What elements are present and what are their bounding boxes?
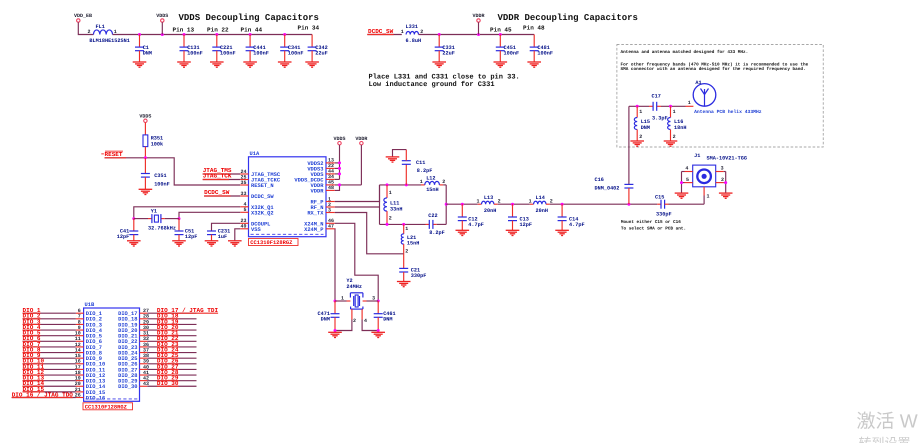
svg-text:VDDS: VDDS bbox=[156, 13, 168, 19]
wire VDDR bus (decoupling row) bbox=[419, 33, 535, 36]
svg-text:1: 1 bbox=[688, 100, 691, 106]
wire DIO_17 / JTAG TDI bbox=[147, 312, 218, 314]
pin 28 DIO_18 U1B bbox=[118, 314, 149, 323]
ground under C14 bbox=[555, 230, 569, 235]
svg-text:DCDC_SW: DCDC_SW bbox=[204, 189, 230, 196]
ground under C461 bbox=[371, 332, 385, 337]
svg-text:22uF: 22uF bbox=[442, 50, 454, 56]
svg-text:100k: 100k bbox=[151, 141, 163, 147]
wire DIO_2 bbox=[23, 318, 76, 320]
svg-text:330pF: 330pF bbox=[656, 212, 672, 218]
svg-text:100nF: 100nF bbox=[187, 50, 203, 56]
svg-text:L12: L12 bbox=[426, 175, 435, 181]
svg-text:DIO_16: DIO_16 bbox=[86, 395, 105, 401]
svg-text:Antenna and antenna matched de: Antenna and antenna matched designed for… bbox=[621, 49, 749, 55]
capacitor C351 100nF bbox=[141, 158, 170, 190]
svg-text:8.2pF: 8.2pF bbox=[429, 230, 445, 236]
wire DIO_26 bbox=[147, 363, 196, 365]
svg-text:X32K_Q2: X32K_Q2 bbox=[251, 210, 274, 216]
pin 31 DIO_21 U1B bbox=[118, 331, 149, 340]
svg-text:C17: C17 bbox=[652, 94, 661, 100]
svg-text:Pin 48: Pin 48 bbox=[523, 25, 545, 32]
pin 6 DIO_1 U1B bbox=[76, 308, 102, 317]
svg-text:1: 1 bbox=[405, 226, 408, 232]
power flag VDD_EB bbox=[74, 13, 92, 22]
pin 41 DIO_28 U1B bbox=[118, 370, 149, 379]
ground under J1 right bbox=[719, 193, 733, 198]
svg-text:6.8uH: 6.8uH bbox=[406, 38, 422, 44]
svg-text:20nH: 20nH bbox=[536, 208, 548, 214]
svg-text:1: 1 bbox=[389, 190, 392, 196]
svg-text:U1A: U1A bbox=[250, 151, 260, 157]
wire balun left edge bbox=[379, 185, 381, 225]
wire DIO_18 bbox=[147, 318, 196, 320]
pin 27 DIO_17 U1B bbox=[118, 308, 149, 317]
capacitor C22 8.2pF bbox=[428, 213, 444, 236]
pin 22 VDDS3 U1A bbox=[307, 163, 334, 172]
svg-text:VDDS Decoupling Capacitors: VDDS Decoupling Capacitors bbox=[179, 13, 319, 23]
svg-text:3: 3 bbox=[372, 295, 375, 301]
pin 4 X32K_Q1 U1A bbox=[240, 202, 273, 211]
svg-text:48: 48 bbox=[328, 185, 334, 191]
capacitor C1 DNM bbox=[135, 35, 152, 63]
pin 35 RESET_N U1A bbox=[240, 180, 273, 189]
pin 18 DIO_12 U1B bbox=[75, 370, 105, 379]
wire DIO_25 bbox=[147, 357, 196, 359]
svg-text:DNM: DNM bbox=[383, 317, 392, 323]
pin 25 JTAG_TCKC U1A bbox=[240, 174, 281, 183]
svg-text:CC1310F128RGZ: CC1310F128RGZ bbox=[85, 404, 127, 410]
svg-text:C11: C11 bbox=[416, 160, 425, 166]
svg-text:L13: L13 bbox=[484, 195, 493, 201]
svg-text:20nH: 20nH bbox=[484, 208, 496, 214]
ground under C471 bbox=[328, 332, 342, 337]
ground under C231 bbox=[205, 241, 219, 246]
svg-text:1: 1 bbox=[420, 179, 423, 185]
svg-text:3.3pF: 3.3pF bbox=[652, 116, 668, 122]
value label CC1310F128RGZ (U1A) bbox=[249, 239, 299, 247]
svg-text:Antenna PCB helix 433MHz: Antenna PCB helix 433MHz bbox=[694, 109, 762, 115]
pin 2 RF_N U1A bbox=[311, 202, 335, 211]
svg-text:1: 1 bbox=[529, 199, 532, 205]
svg-text:32.768kHz: 32.768kHz bbox=[148, 225, 176, 231]
ground under C51 bbox=[172, 241, 186, 246]
wire DIO_29 bbox=[147, 380, 196, 382]
capacitor C131 100nF bbox=[180, 35, 203, 63]
wire DIO_9 bbox=[23, 357, 76, 359]
svg-text:VDDR: VDDR bbox=[311, 188, 325, 194]
wire JTAG_TMS bbox=[203, 173, 241, 175]
pin 12 DIO_7 U1B bbox=[75, 342, 102, 351]
svg-text:X24M_P: X24M_P bbox=[304, 227, 323, 233]
ground under C21 bbox=[397, 282, 411, 287]
ferrite bead FL1 BLM18HE152SN1 bbox=[87, 24, 129, 44]
svg-text:Pin 44: Pin 44 bbox=[241, 27, 263, 34]
svg-text:4.7pF: 4.7pF bbox=[468, 222, 484, 228]
inductor L21 15nH bbox=[401, 224, 419, 254]
connector J1 SMA-10V21-TGG bbox=[685, 153, 747, 200]
ground under L16 bbox=[664, 141, 678, 146]
wire DIO_14 bbox=[23, 385, 76, 387]
svg-text:VDDR: VDDR bbox=[472, 13, 484, 19]
svg-text:VDDR Decoupling Capacitors: VDDR Decoupling Capacitors bbox=[498, 13, 638, 23]
capacitor C231 1uF bbox=[207, 223, 240, 241]
svg-text:1: 1 bbox=[401, 29, 404, 35]
capacitor C451 100nF bbox=[496, 35, 519, 63]
pin 26 DIO_16 U1B bbox=[75, 392, 105, 401]
svg-text:RESET: RESET bbox=[105, 151, 123, 158]
watermark activate windows bbox=[857, 412, 918, 443]
svg-text:Mount either C15 or C16: Mount either C15 or C16 bbox=[621, 219, 681, 225]
capacitor C331 22uF bbox=[435, 35, 455, 63]
svg-text:18nH: 18nH bbox=[674, 125, 686, 131]
svg-text:15nH: 15nH bbox=[426, 187, 438, 193]
wire DIO_24 bbox=[147, 352, 196, 354]
pin 24 JTAG_TMSC U1A bbox=[240, 169, 281, 178]
pin 46 X24M_N U1A bbox=[304, 218, 335, 227]
ground under C451 bbox=[494, 62, 508, 67]
crystal Y1 32.768kHz bbox=[134, 208, 179, 231]
ground under C481 bbox=[527, 62, 541, 67]
wire DIO_21 bbox=[147, 335, 196, 337]
svg-text:VDD_EB: VDD_EB bbox=[74, 13, 92, 19]
pin 33 DCDC_SW U1A bbox=[240, 191, 274, 200]
value label CC1310F128RGZ (U1B) bbox=[83, 403, 133, 411]
svg-text:DCDC_SW: DCDC_SW bbox=[251, 194, 274, 200]
wire RF bus segment 1 bbox=[446, 203, 481, 206]
svg-text:C22: C22 bbox=[428, 213, 437, 219]
svg-text:4.7pF: 4.7pF bbox=[569, 222, 585, 228]
svg-text:12pF: 12pF bbox=[185, 234, 197, 240]
power flag VDDR bbox=[472, 13, 484, 35]
wire RF_N to balun left bbox=[335, 206, 380, 208]
resistor R351 100k bbox=[143, 123, 163, 158]
svg-text:12pF: 12pF bbox=[117, 234, 129, 240]
capacitor C481 100nF bbox=[530, 35, 553, 63]
wire antenna net bbox=[629, 105, 694, 147]
wire DIO_10 bbox=[23, 363, 76, 365]
svg-text:To select SMA or PCB ant.: To select SMA or PCB ant. bbox=[621, 226, 686, 232]
wire JTAG_TCK bbox=[203, 179, 241, 181]
svg-text:Pin 45: Pin 45 bbox=[490, 27, 512, 34]
svg-text:1: 1 bbox=[673, 109, 676, 115]
svg-text:Y1: Y1 bbox=[151, 208, 157, 214]
antenna matching dashed box bbox=[617, 45, 823, 148]
capacitor C51 12pF bbox=[175, 219, 198, 241]
svg-text:100nF: 100nF bbox=[504, 50, 520, 56]
wire RF bus segment 3 bbox=[546, 203, 661, 206]
svg-text:U1B: U1B bbox=[85, 302, 95, 308]
net label ~RESET bbox=[101, 151, 123, 158]
svg-text:DNM: DNM bbox=[321, 317, 330, 323]
wire DIO_3 bbox=[23, 323, 76, 325]
wire DIO_4 bbox=[23, 329, 76, 331]
ground under C341 bbox=[278, 62, 292, 67]
svg-text:RX_TX: RX_TX bbox=[307, 211, 324, 217]
wire RF bus segment 2 bbox=[494, 203, 534, 206]
capacitor C461 DNM bbox=[374, 301, 396, 331]
pin 7 DIO_2 U1B bbox=[76, 314, 102, 323]
pin 44 VDDS U1A bbox=[311, 169, 335, 178]
svg-text:24MHz: 24MHz bbox=[346, 284, 362, 290]
svg-text:49: 49 bbox=[240, 224, 246, 230]
pin 45 VDDR U1A bbox=[311, 180, 335, 189]
wire DIO_19 bbox=[147, 323, 196, 325]
ground under C331 bbox=[432, 62, 446, 67]
svg-text:Low inductance ground for C331: Low inductance ground for C331 bbox=[369, 80, 495, 89]
svg-text:L14: L14 bbox=[536, 195, 545, 201]
wire DIO_8 bbox=[23, 352, 76, 354]
pin 13 VDDS2 U1A bbox=[307, 158, 334, 167]
op IC U1A CC1310F128RGZ (RF/power section) bbox=[249, 151, 327, 237]
svg-text:4: 4 bbox=[685, 166, 688, 172]
ground under L15 bbox=[630, 141, 644, 146]
svg-text:330pF: 330pF bbox=[411, 273, 427, 279]
capacitor C14 4.7pF bbox=[558, 204, 585, 230]
inductor L11 33nH bbox=[384, 185, 403, 225]
wire balun bottom edge bbox=[380, 223, 447, 226]
pin 29 DIO_19 U1B bbox=[118, 319, 149, 328]
wire DIO_6 bbox=[23, 340, 76, 342]
svg-text:BLM18HE152SN1: BLM18HE152SN1 bbox=[89, 38, 129, 44]
wire X24M_N to Y2 pin3 bbox=[335, 223, 380, 302]
pin 16 DIO_10 U1B bbox=[75, 359, 105, 368]
capacitor C221 100nF bbox=[212, 35, 235, 63]
svg-text:JTAG_TCK: JTAG_TCK bbox=[203, 173, 232, 180]
wire DIO_1 bbox=[23, 312, 76, 314]
svg-text:2: 2 bbox=[639, 134, 642, 140]
pin 36 DIO_23 U1B bbox=[118, 342, 149, 351]
svg-text:4: 4 bbox=[364, 318, 367, 324]
wire DCDC_SW to pin 33 bbox=[204, 195, 240, 197]
wire RF_P to balun top bbox=[335, 185, 380, 202]
svg-text:SMA-10V21-TGG: SMA-10V21-TGG bbox=[707, 155, 747, 161]
svg-text:2: 2 bbox=[87, 29, 90, 35]
capacitor C471 DNM bbox=[318, 301, 340, 331]
svg-text:1: 1 bbox=[639, 109, 642, 115]
svg-text:100nF: 100nF bbox=[537, 50, 553, 56]
svg-text:100nF: 100nF bbox=[253, 50, 269, 56]
wire balun right edge bbox=[445, 185, 448, 225]
svg-text:1: 1 bbox=[707, 194, 710, 200]
pin 17 DIO_11 U1B bbox=[75, 364, 105, 373]
svg-text:L16: L16 bbox=[674, 119, 683, 125]
capacitor C11 8.2pF bbox=[393, 150, 433, 185]
svg-text:2: 2 bbox=[498, 199, 501, 205]
pin 34 VDDS_DCDC U1A bbox=[294, 174, 334, 183]
pin 3 RX_TX U1A bbox=[307, 207, 334, 216]
wire DIO_20 bbox=[147, 329, 196, 331]
svg-text:47: 47 bbox=[328, 224, 334, 230]
inductor L331 6.8uH bbox=[401, 24, 423, 44]
ground under C441 bbox=[243, 62, 257, 67]
wire J1 left pins to ground bbox=[680, 172, 693, 194]
svg-text:Pin 13: Pin 13 bbox=[173, 27, 195, 34]
svg-text:22uF: 22uF bbox=[315, 50, 327, 56]
svg-text:RESET_N: RESET_N bbox=[251, 183, 274, 189]
wire DIO_30 bbox=[147, 385, 196, 387]
wire RX_TX bbox=[335, 213, 404, 254]
pin 39 DIO_26 U1B bbox=[118, 359, 149, 368]
wire RESET net bbox=[105, 156, 241, 185]
wire DIO_7 bbox=[23, 346, 76, 348]
pin 5 X32K_Q2 U1A bbox=[240, 207, 273, 216]
pin 37 DIO_24 U1B bbox=[118, 347, 149, 356]
svg-text:12pF: 12pF bbox=[520, 222, 532, 228]
svg-text:L331: L331 bbox=[406, 24, 418, 30]
pin 9 DIO_4 U1B bbox=[76, 325, 103, 334]
pin 15 DIO_9 U1B bbox=[75, 353, 102, 362]
pin 49 VSS U1A bbox=[240, 224, 261, 233]
capacitor C342 22uF bbox=[308, 35, 328, 63]
wire VDDR net to pins 45 48 bbox=[335, 145, 362, 191]
pin 40 DIO_27 U1B bbox=[118, 364, 149, 373]
capacitor C15 330pF bbox=[655, 195, 704, 218]
svg-text:15nH: 15nH bbox=[407, 241, 419, 247]
capacitor C341 100nF bbox=[280, 35, 303, 63]
svg-text:2: 2 bbox=[550, 199, 553, 205]
wire X32K_Q2 bbox=[178, 212, 241, 220]
wire DIO_5 bbox=[23, 335, 76, 337]
svg-text:33: 33 bbox=[240, 191, 246, 197]
inductor L12 15nH bbox=[420, 175, 446, 193]
inductor L15 DNM bbox=[634, 106, 650, 141]
wire DIO_23 bbox=[147, 346, 196, 348]
ground under C12 bbox=[456, 230, 470, 235]
pin 1 RF_P U1A bbox=[311, 196, 335, 205]
pin 10 DIO_5 U1B bbox=[75, 331, 102, 340]
svg-text:2: 2 bbox=[405, 249, 408, 255]
svg-text:1uF: 1uF bbox=[218, 234, 227, 240]
svg-text:2: 2 bbox=[389, 216, 392, 222]
wire X24M_P to Y2 pin1 bbox=[334, 229, 337, 303]
pin 43 DIO_30 U1B bbox=[118, 381, 149, 390]
svg-text:VSS: VSS bbox=[251, 227, 261, 233]
svg-text:SMA connector with an antenna: SMA connector with an antenna designed f… bbox=[621, 66, 806, 72]
pin 8 DIO_3 U1B bbox=[76, 319, 102, 328]
ground under C1 bbox=[133, 62, 147, 67]
wire DIO_13 bbox=[23, 380, 76, 382]
svg-text:2: 2 bbox=[353, 318, 356, 324]
svg-text:C16: C16 bbox=[595, 177, 604, 183]
capacitor C21 330pF bbox=[399, 254, 426, 282]
power flag VDDS bbox=[156, 13, 168, 35]
svg-text:8.2pF: 8.2pF bbox=[417, 168, 433, 174]
note about L331 C331 placement bbox=[369, 73, 520, 90]
capacitor C41 12pF bbox=[117, 219, 139, 241]
note mount C15 or C16 bbox=[621, 219, 686, 232]
crystal Y2 24MHz bbox=[335, 278, 378, 324]
ground under C13 bbox=[506, 230, 520, 235]
svg-text:激活 W: 激活 W bbox=[857, 412, 918, 433]
wire DIO_15 bbox=[23, 391, 76, 393]
op IC U1B CC1310F128RGZ (DIO section) bbox=[84, 302, 140, 401]
pin 38 DIO_25 U1B bbox=[118, 353, 149, 362]
power flag VDDS (U1A) bbox=[333, 136, 345, 145]
svg-text:3: 3 bbox=[328, 207, 331, 213]
inductor L13 20nH bbox=[476, 195, 500, 214]
wire DIO_12 bbox=[23, 374, 76, 376]
wire DIO_22 bbox=[147, 340, 196, 342]
pin 42 DIO_29 U1B bbox=[118, 376, 149, 385]
svg-text:FL1: FL1 bbox=[96, 24, 105, 30]
inductor L16 18nH bbox=[668, 106, 687, 141]
ground under C351 bbox=[139, 189, 153, 194]
wire DIO_28 bbox=[147, 374, 196, 376]
svg-text:J1: J1 bbox=[694, 153, 700, 159]
wire VDDS net to pins 13 22 44 34 bbox=[335, 145, 341, 180]
svg-text:100nF: 100nF bbox=[154, 182, 170, 188]
svg-text:Pin 34: Pin 34 bbox=[298, 25, 320, 32]
capacitor C17 3.3pF bbox=[652, 94, 668, 122]
svg-text:1: 1 bbox=[341, 295, 344, 301]
ground VSS bbox=[228, 241, 242, 246]
capacitor C13 12pF bbox=[508, 204, 532, 230]
svg-text:转到设置: 转到设置 bbox=[859, 436, 911, 443]
wire X32K_Q1 bbox=[132, 207, 240, 220]
wire VSS to ground bbox=[235, 229, 240, 241]
wire J1 right pins to ground bbox=[716, 172, 728, 194]
ground under C342 bbox=[305, 62, 319, 67]
wire VDDS bus (decoupling row) bbox=[113, 33, 313, 36]
pin 19 DIO_13 U1B bbox=[75, 376, 105, 385]
svg-text:3: 3 bbox=[721, 166, 724, 172]
wire DIO_27 bbox=[147, 368, 196, 370]
ground above C11 bbox=[386, 157, 400, 162]
svg-text:DNM_0402: DNM_0402 bbox=[595, 185, 620, 191]
pin 20 DIO_14 U1B bbox=[75, 381, 106, 390]
wire balun top edge bbox=[380, 183, 447, 186]
svg-text:33nH: 33nH bbox=[390, 206, 402, 212]
power flag VDDS (R351) bbox=[139, 114, 151, 123]
ground under C221 bbox=[210, 62, 224, 67]
ground under J1 left bbox=[675, 193, 689, 198]
capacitor C441 100nF bbox=[246, 35, 269, 63]
svg-text:100nF: 100nF bbox=[220, 50, 236, 56]
pin 48 VDDR U1A bbox=[311, 185, 335, 194]
antenna A1 PCB helix 433MHz bbox=[688, 80, 762, 115]
svg-text:A1: A1 bbox=[695, 80, 701, 86]
pin 14 DIO_8 U1B bbox=[75, 347, 102, 356]
ground under C131 bbox=[177, 62, 191, 67]
capacitor C12 4.7pF bbox=[458, 204, 484, 230]
svg-text:1: 1 bbox=[476, 199, 479, 205]
pin 21 DIO_15 U1B bbox=[75, 387, 105, 396]
wire VDD_EB to FL1 bbox=[78, 22, 93, 34]
svg-text:DNM: DNM bbox=[641, 125, 650, 131]
wire DIO_11 bbox=[23, 368, 76, 370]
svg-text:CC1310F128RGZ: CC1310F128RGZ bbox=[250, 240, 292, 246]
pin 47 X24M_P U1A bbox=[304, 224, 335, 233]
pin 11 DIO_6 U1B bbox=[75, 336, 102, 345]
ground under C41 bbox=[127, 241, 141, 246]
svg-text:C15: C15 bbox=[655, 195, 664, 201]
svg-text:Pin 22: Pin 22 bbox=[207, 27, 229, 34]
capacitor C16 DNM_0402 bbox=[595, 147, 634, 204]
svg-text:2: 2 bbox=[673, 134, 676, 140]
inductor L14 20nH bbox=[529, 195, 553, 214]
svg-text:100nF: 100nF bbox=[288, 50, 304, 56]
wire J1 pin1 to RF bus bbox=[703, 187, 705, 204]
svg-text:5: 5 bbox=[243, 207, 246, 213]
svg-text:DIO_30: DIO_30 bbox=[118, 384, 137, 390]
power flag VDDR (U1A) bbox=[355, 136, 367, 145]
wire DIO_16 / JTAG TDO bbox=[12, 397, 76, 399]
pin 23 DCOUPL U1A bbox=[240, 218, 270, 227]
svg-text:C351: C351 bbox=[154, 173, 166, 179]
pin 32 DIO_22 U1B bbox=[118, 336, 149, 345]
svg-text:35: 35 bbox=[240, 180, 246, 186]
